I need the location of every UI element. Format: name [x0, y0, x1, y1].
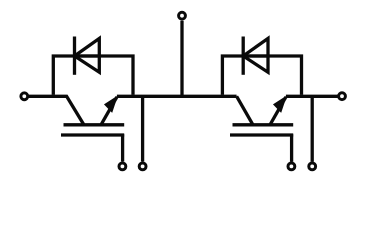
terminal top (AC output) [179, 12, 186, 19]
terminal T1 aux emitter [139, 163, 146, 170]
wire T2 gate lead [290, 134, 293, 162]
wire diode D1 loop [53, 56, 133, 95]
wire T2 aux emitter lead [311, 96, 314, 162]
wire bus to T2 collector [237, 96, 253, 124]
transistor T1 (IGBT) [61, 97, 124, 135]
wire top terminal lead [180, 21, 183, 97]
terminal T2 gate [288, 163, 295, 170]
terminal T1 gate [119, 163, 126, 170]
wire left terminal to T1 collector [29, 96, 84, 124]
wire AC bus (E1 to C2) [117, 95, 237, 98]
wire diode D2 loop [222, 56, 301, 95]
wire T1 aux emitter lead [141, 96, 144, 161]
terminal left (collector C1) [21, 93, 28, 100]
terminal T2 aux emitter [309, 163, 316, 170]
transistor T2 (IGBT) [230, 97, 293, 135]
wire T1 gate lead [121, 134, 124, 161]
wire T2 emitter to right terminal [286, 95, 338, 98]
diode D2 [243, 37, 268, 75]
diode D1 [75, 37, 100, 75]
terminal right (emitter E2) [339, 93, 346, 100]
